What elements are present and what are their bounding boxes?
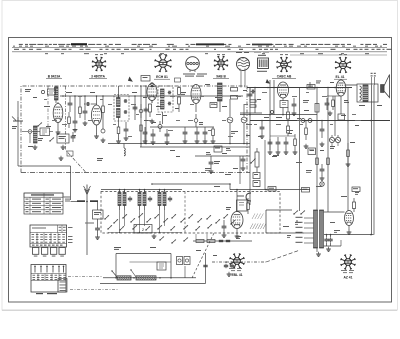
HT rail	[60, 95, 243, 97]
wire	[240, 114, 317, 116]
speaker	[381, 85, 385, 93]
value marks	[170, 150, 175, 151]
ground	[166, 140, 168, 142]
coil lead stubs	[119, 210, 121, 233]
ground	[57, 130, 59, 132]
corner labels	[25, 89, 31, 90]
wire	[236, 190, 238, 212]
parts list rule 1	[12, 46, 387, 48]
wire	[205, 253, 207, 284]
wire	[17, 101, 19, 166]
ground	[348, 230, 350, 232]
ground	[153, 234, 155, 236]
circle junction 2	[158, 125, 162, 129]
wire	[184, 266, 186, 278]
cathode cap C24	[326, 101, 328, 103]
ground	[228, 272, 230, 274]
capacitor C16	[261, 125, 263, 127]
ground	[223, 233, 225, 235]
tube V2 hexode	[92, 105, 102, 125]
capacitor C4	[84, 109, 86, 111]
osc box	[57, 134, 69, 143]
ground	[152, 140, 154, 142]
wire	[140, 86, 142, 147]
switch bar L	[77, 200, 85, 202]
pin number marks	[95, 53, 98, 56]
resistor R10	[178, 88, 181, 95]
volume potentiometer P1	[255, 152, 259, 167]
wire	[152, 183, 230, 185]
gang section L4	[158, 193, 161, 206]
RF inner partition (dash-dot)	[66, 86, 87, 173]
value marks	[214, 161, 220, 162]
value marks	[44, 106, 50, 107]
wire	[347, 88, 349, 211]
anode resistors	[280, 101, 288, 108]
capacitor C6	[125, 127, 127, 129]
parts list text rows	[19, 44, 23, 45]
secondary lead	[324, 211, 345, 213]
capacitor C-ant	[97, 219, 99, 226]
wire	[254, 88, 256, 114]
ground	[321, 176, 323, 178]
resistor R3	[79, 107, 82, 114]
wire	[230, 189, 310, 191]
dial lamp strip 2	[136, 276, 156, 280]
ground	[60, 156, 62, 158]
heater bus	[103, 277, 196, 279]
voltage table	[24, 193, 63, 214]
capacitor C11b	[152, 132, 154, 134]
wire	[249, 88, 251, 206]
pilot circle B	[335, 137, 340, 142]
switch arrow	[49, 140, 50, 141]
selenium annotation	[254, 52, 261, 53]
capacitor C26	[321, 167, 323, 169]
eye annotation	[236, 52, 242, 53]
gang section L3	[138, 193, 141, 206]
junction circle mid	[139, 109, 143, 113]
value marks	[359, 105, 365, 106]
lamp pair	[177, 257, 183, 265]
tube socket V6 bottom view	[230, 254, 245, 269]
wire	[239, 156, 241, 184]
resistor R5	[117, 127, 120, 134]
ground	[84, 121, 86, 123]
output transformer T3	[357, 84, 378, 102]
detector diode D2	[241, 117, 247, 123]
heater dropper row	[193, 240, 252, 242]
ground	[125, 136, 127, 138]
wire	[134, 96, 136, 120]
wire	[334, 96, 336, 136]
line circle B	[308, 119, 312, 123]
resistor R22	[316, 158, 319, 165]
rectifier tube V7	[345, 211, 354, 226]
value texture	[44, 98, 47, 101]
junction	[249, 114, 251, 116]
capacitor C12b	[184, 130, 186, 132]
switch wafer hatch	[250, 224, 253, 230]
wire	[18, 165, 71, 167]
wire	[22, 131, 28, 133]
resistor R8	[149, 104, 152, 112]
ground	[277, 150, 279, 152]
wire	[151, 86, 153, 88]
lamp box B2	[302, 188, 310, 193]
wire	[316, 88, 318, 211]
IF coil L3	[218, 83, 223, 101]
junction	[326, 234, 328, 236]
wire	[240, 112, 262, 114]
junction	[261, 120, 263, 122]
junction circle det	[194, 119, 198, 123]
box label 2	[308, 148, 316, 155]
top small box	[141, 76, 150, 82]
mains loop	[265, 210, 267, 233]
main B+ line	[250, 120, 390, 122]
wire	[273, 80, 275, 115]
marker arrow A	[128, 77, 133, 82]
ground	[318, 252, 320, 254]
capacitor C23b	[205, 264, 207, 266]
switch arrow	[37, 125, 38, 126]
wire	[309, 82, 311, 88]
tube socket V1 (top view)	[92, 57, 106, 71]
coil box	[157, 262, 166, 270]
svg-text:9AB B: 9AB B	[216, 75, 226, 79]
ground	[236, 234, 238, 236]
capacitor C17	[293, 102, 295, 104]
value marks	[38, 138, 43, 139]
ground	[294, 150, 296, 152]
connector block X2	[31, 265, 66, 293]
svg-text:B 8423A: B 8423A	[48, 75, 61, 79]
cathode resistor R20	[332, 100, 335, 107]
grid resistor box	[338, 114, 345, 120]
det box 2	[231, 96, 238, 100]
antenna coupling box	[93, 210, 104, 219]
ground	[212, 139, 214, 141]
ground	[347, 162, 349, 164]
connector block X1	[30, 225, 67, 247]
line circle A	[301, 119, 305, 123]
RF section boundary (dash-dot)	[21, 86, 247, 173]
wire	[327, 95, 341, 97]
magic eye top view	[237, 58, 250, 71]
mains switch S1	[293, 213, 294, 214]
svg-text:AZ 41: AZ 41	[344, 276, 353, 280]
aerial label	[63, 197, 71, 198]
capacitor C22	[223, 224, 225, 226]
AVC line	[108, 143, 250, 145]
tube socket V7 bottom view	[341, 255, 356, 270]
tone cap C25	[321, 127, 323, 129]
value marks	[226, 207, 231, 208]
value marks	[132, 92, 137, 93]
capacitor C22b	[242, 157, 244, 159]
resistor R4	[102, 106, 105, 113]
jack circle	[320, 182, 324, 186]
capacitor C13	[196, 130, 198, 132]
sun annotation 2	[341, 270, 347, 271]
wire	[101, 189, 182, 191]
IF transformer T2	[158, 86, 173, 112]
mains dash wire	[212, 261, 266, 263]
svg-text:EBL 41: EBL 41	[231, 273, 242, 277]
svg-text:3 4805TA: 3 4805TA	[91, 75, 105, 79]
lamp box B3	[352, 187, 360, 192]
svg-text:EL 41: EL 41	[336, 75, 345, 79]
primary taps	[304, 217, 314, 219]
value marks	[114, 247, 121, 248]
band switch boundary (dashed)	[101, 192, 280, 234]
switch box	[134, 225, 152, 234]
tube socket V4 (top view)	[277, 57, 292, 72]
wire	[162, 112, 164, 124]
left dash stub	[68, 276, 103, 278]
tube V6 output	[231, 212, 243, 229]
value marks	[181, 92, 186, 93]
ground	[144, 139, 146, 141]
tube socket V2 (top view)	[155, 55, 172, 72]
page bottom shadow edge	[2, 309, 397, 311]
box label	[307, 85, 315, 90]
ground	[204, 139, 206, 141]
junction	[62, 95, 64, 97]
pilot circle A	[329, 137, 334, 142]
C-spring clip	[246, 193, 251, 201]
wire	[371, 102, 373, 235]
ground	[305, 144, 307, 146]
tube V1 triode	[53, 104, 63, 123]
resistor R16	[294, 139, 297, 146]
coupling dash	[192, 233, 214, 278]
corner circle	[41, 90, 44, 93]
junction circle	[271, 111, 274, 114]
capacitor C14	[249, 92, 251, 94]
mains dash line	[266, 250, 300, 262]
resistor chain	[287, 112, 290, 119]
drawing frame	[9, 38, 392, 303]
selenium block	[258, 58, 269, 69]
junction	[140, 143, 142, 145]
value annotations	[206, 152, 210, 153]
det box 3	[210, 103, 217, 108]
resistor R23	[347, 150, 350, 157]
capacitor C19	[277, 140, 279, 142]
wire	[195, 155, 250, 157]
resistor R13	[250, 105, 256, 107]
mixer cap	[72, 134, 74, 136]
resistor R19	[247, 203, 250, 210]
eye stem leads	[240, 71, 242, 88]
tube V2a mixer	[147, 84, 157, 101]
small box	[67, 151, 73, 156]
tube V4 AF	[278, 82, 289, 98]
ground	[210, 169, 212, 171]
ground	[285, 150, 287, 152]
box label 3	[214, 146, 222, 152]
top small box 2	[175, 78, 181, 82]
wave switch contacts	[104, 218, 105, 219]
electrolytic C27	[326, 237, 328, 239]
tube V3 det	[191, 85, 201, 104]
pot box 2	[253, 181, 260, 187]
tube socket V3 (top view)	[214, 56, 228, 70]
HT return	[324, 234, 374, 236]
capacitor C20	[285, 140, 287, 142]
ground	[184, 139, 186, 141]
ground	[62, 145, 64, 147]
ground	[74, 127, 76, 129]
coupling coil L2	[124, 148, 125, 156]
lamp box B1	[268, 187, 276, 192]
value marks	[304, 110, 309, 111]
junction	[296, 220, 297, 221]
antenna	[86, 185, 88, 195]
RF partition 2 (dash-dot)	[47, 86, 49, 128]
ground	[96, 134, 98, 136]
ground	[97, 235, 99, 237]
cap pair mains	[225, 264, 227, 266]
capacitor C12	[166, 132, 168, 134]
jack circle J2	[101, 129, 105, 133]
ground	[329, 111, 331, 113]
wire	[346, 84, 357, 86]
ground	[102, 138, 104, 140]
wire	[269, 80, 271, 150]
ground	[328, 247, 330, 249]
resistor R21	[305, 128, 308, 135]
lamp annotation	[183, 74, 195, 75]
value marks	[243, 90, 247, 91]
value marks	[330, 82, 334, 83]
junction	[267, 87, 269, 89]
resistor R15	[315, 104, 319, 113]
capacitor C7	[134, 105, 136, 107]
junction	[115, 277, 117, 279]
svg-text:ECH 81: ECH 81	[156, 75, 168, 79]
wire	[316, 248, 318, 252]
input coil L0	[34, 126, 38, 143]
circle junction	[151, 83, 154, 86]
ground	[242, 166, 244, 168]
wire	[130, 261, 172, 263]
junction	[140, 85, 142, 87]
wire	[116, 253, 171, 255]
dial lamp strip 1	[117, 276, 131, 280]
grid cap C5	[86, 103, 88, 105]
aerial terminal	[13, 120, 23, 122]
antenna pole	[86, 194, 88, 255]
input box	[40, 128, 50, 136]
terminal circle	[28, 130, 32, 134]
parts list rule 3 (right)	[290, 54, 387, 56]
ground	[151, 119, 153, 121]
wire	[299, 88, 301, 212]
svg-text:CABC AB: CABC AB	[277, 75, 292, 79]
switch bar R	[90, 200, 98, 202]
detector diode D1	[227, 117, 233, 123]
second bus	[140, 146, 250, 148]
speaker leads	[371, 73, 373, 74]
junction	[86, 201, 88, 203]
ground	[34, 145, 36, 147]
switch arrows lower	[159, 239, 160, 240]
IF transformer T1	[114, 95, 129, 122]
resistor R11	[212, 129, 215, 136]
capacitor C15	[251, 91, 253, 93]
oscillator coil L1	[55, 87, 59, 100]
wire	[150, 126, 214, 128]
pot box 1	[253, 173, 260, 179]
wire	[264, 140, 266, 190]
power transformer T4	[314, 210, 318, 248]
marker arrow B	[266, 79, 271, 84]
resistor R6	[140, 125, 142, 131]
sun annotation	[229, 268, 235, 269]
ground	[261, 134, 263, 136]
capacitor C21	[210, 160, 212, 162]
dial lamp top view	[186, 57, 200, 71]
ground	[293, 111, 295, 113]
value marks	[330, 146, 335, 147]
tube V5 EL41	[336, 80, 346, 96]
gang section L2	[118, 193, 121, 206]
resistor R2	[68, 117, 71, 124]
wire	[71, 201, 78, 203]
resistor R12	[250, 100, 256, 102]
capacitor C11	[144, 130, 146, 132]
wire	[145, 86, 147, 143]
capacitor C13b	[204, 130, 206, 132]
fuse	[353, 202, 356, 209]
padder C2	[69, 101, 71, 103]
capacitor C18	[269, 140, 271, 142]
bus marks	[316, 81, 321, 82]
tube socket V5 (top view)	[335, 57, 351, 73]
parts list footnotes	[45, 52, 48, 55]
corner box	[48, 89, 56, 95]
wire	[327, 88, 329, 213]
gang divider (dashed)	[184, 192, 186, 234]
gang bottom bus	[108, 232, 182, 234]
junction	[236, 189, 238, 191]
wire	[270, 135, 295, 137]
wire	[29, 133, 31, 143]
ground	[269, 150, 271, 152]
value marks	[272, 156, 277, 157]
parts list rule 2	[12, 51, 387, 53]
chassis line (dash-dot)	[21, 172, 250, 174]
main HT bus	[247, 87, 352, 89]
grid resistor box	[237, 200, 248, 211]
ground	[118, 139, 120, 141]
det box 1	[231, 88, 238, 92]
ground	[196, 139, 198, 141]
capacitor C3	[74, 119, 76, 121]
